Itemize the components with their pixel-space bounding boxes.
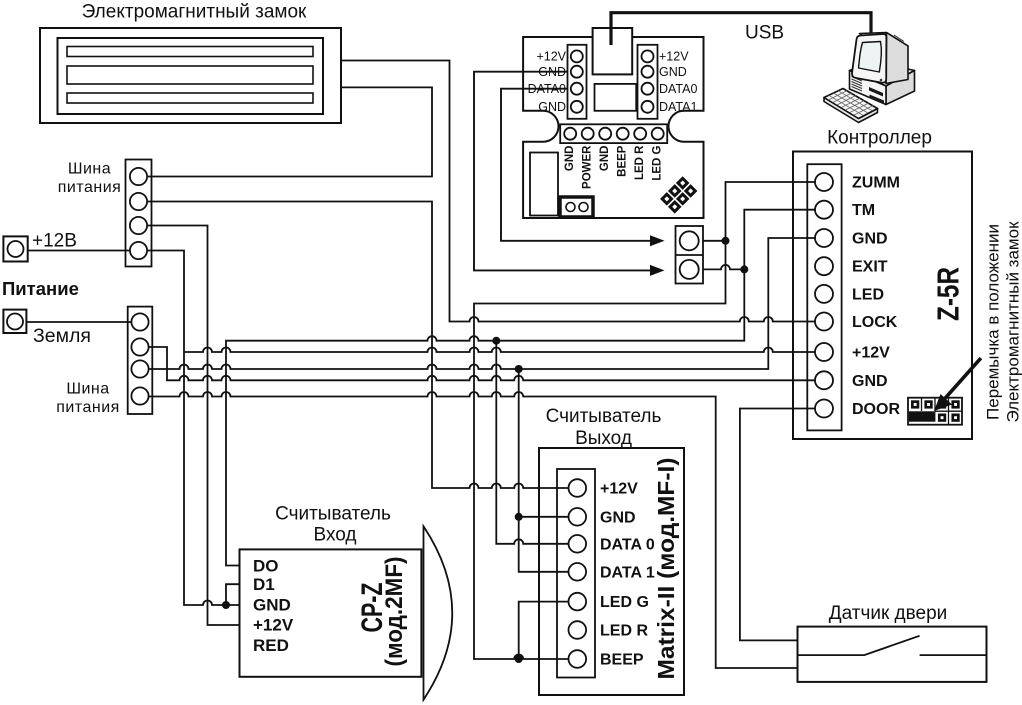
- svg-text:LED G: LED G: [652, 145, 664, 180]
- svg-text:LOCK: LOCK: [852, 314, 898, 331]
- svg-text:Питание: Питание: [2, 278, 79, 299]
- svg-text:POWER: POWER: [582, 145, 594, 189]
- wire: branch to Matrix LED G: [519, 602, 569, 659]
- svg-text:GND: GND: [538, 100, 566, 114]
- keyboard thickness: [824, 98, 878, 123]
- svg-text:питания: питания: [56, 399, 120, 416]
- wire: +12V rail to Z-5R +12V: [184, 348, 815, 353]
- power bus (bottom) connector: [128, 307, 153, 414]
- case top face: [850, 62, 915, 87]
- TM reader connector: [676, 226, 704, 284]
- case front face: [850, 71, 887, 105]
- svg-text:TM: TM: [852, 202, 875, 219]
- usb adapter: DATA0 wire to TM pin1 arrow: [501, 89, 652, 241]
- USB cable: [611, 13, 871, 36]
- USB adapter board outline with side notches: [523, 37, 703, 218]
- svg-text:GND: GND: [600, 509, 636, 526]
- svg-text:DATA 0: DATA 0: [600, 536, 655, 553]
- svg-text:GND: GND: [852, 373, 888, 390]
- TM connector pigtails: [703, 241, 744, 270]
- svg-text:BEEP: BEEP: [617, 145, 629, 177]
- svg-text:LED G: LED G: [600, 594, 649, 611]
- adapter bottom-left component: [530, 153, 558, 216]
- svg-text:DATA1: DATA1: [659, 100, 697, 114]
- svg-text:+12V: +12V: [600, 481, 638, 498]
- svg-text:Вход: Вход: [314, 525, 357, 546]
- CP-Z terminal labels: [253, 557, 294, 656]
- CP-Z reader box: [240, 549, 422, 676]
- adapter pin labels (vertical): [564, 145, 664, 189]
- +12V source terminal: [3, 236, 27, 261]
- electromagnetic lock body: [40, 28, 341, 123]
- svg-text:USB: USB: [745, 23, 784, 44]
- svg-text:LED: LED: [852, 287, 884, 304]
- wire: lock to Z-5R LOCK: [341, 61, 815, 322]
- svg-text:GND: GND: [659, 65, 687, 79]
- jumper arrow: [944, 358, 981, 399]
- svg-text:RED: RED: [253, 636, 289, 655]
- Matrix terminal labels: [600, 481, 655, 669]
- svg-text:Перемычка в положении: Перемычка в положении: [984, 224, 1003, 420]
- Matrix-II terminal strip: [557, 469, 595, 678]
- drive bays: [869, 87, 883, 97]
- usb cable stub into connector: [609, 27, 612, 45]
- case vents: [852, 77, 863, 92]
- junction wireA / Matrix DATA0 branch: [492, 337, 500, 345]
- wire: +12V to bus t4 to CP-Z GND: [28, 251, 240, 606]
- svg-text:Контроллер: Контроллер: [827, 128, 932, 149]
- svg-text:DATA 1: DATA 1: [600, 564, 655, 581]
- adapter center component: [595, 84, 637, 111]
- junction TM pin1: [722, 237, 730, 245]
- adapter right labels: [659, 50, 697, 115]
- wire: Z-5R DOOR to door sensor: [740, 409, 815, 641]
- wire: Z-5R ZUMM to TM pin1 to reader beep line: [474, 182, 815, 659]
- monitor top vents: [882, 35, 904, 42]
- computer (controller) icon: [824, 33, 915, 123]
- arrowhead to TM pin1: [650, 235, 665, 246]
- svg-text:LED R: LED R: [634, 145, 646, 180]
- wire: Z-5R TM to TM pin2 to CP-Z DO: [226, 210, 815, 566]
- svg-text:DATA0: DATA0: [528, 82, 566, 96]
- svg-text:DO: DO: [253, 557, 279, 576]
- junction b3-wire / Matrix GND branch: [515, 365, 523, 373]
- door sensor box: [798, 627, 987, 682]
- svg-text:ZUMM: ZUMM: [852, 175, 900, 192]
- Z-5R jumper block: [908, 398, 962, 425]
- power bus (top) connector: [126, 160, 152, 267]
- case right panel: [886, 71, 915, 105]
- monitor front: [852, 34, 886, 83]
- wire: bus t3 to CP-Z +12V: [148, 226, 240, 626]
- svg-text:Электромагнитный замок: Электромагнитный замок: [1004, 221, 1022, 423]
- wire: bus b4 to door sensor: [148, 392, 798, 668]
- svg-text:+12В: +12В: [32, 231, 77, 252]
- svg-text:+12V: +12V: [852, 345, 890, 362]
- wire: ground to bus b1: [26, 321, 131, 323]
- svg-text:(мод.2MF): (мод.2MF): [381, 557, 408, 667]
- svg-text:Matrix-II (мод.MF-I): Matrix-II (мод.MF-I): [653, 458, 679, 680]
- svg-text:Электромагнитный замок: Электромагнитный замок: [82, 2, 307, 23]
- junction Matrix GND tap: [515, 513, 523, 521]
- svg-text:питания: питания: [58, 179, 122, 196]
- junction TM pin2: [740, 265, 748, 273]
- Z-5R controller box: [793, 152, 972, 440]
- svg-text:+12V: +12V: [536, 50, 566, 64]
- CP-Z reader dome: [424, 526, 453, 699]
- svg-text:Z-5R: Z-5R: [931, 267, 966, 321]
- svg-text:+12V: +12V: [659, 50, 689, 64]
- svg-text:Шина: Шина: [66, 381, 109, 398]
- svg-text:GND: GND: [599, 146, 611, 172]
- svg-text:Считыватель: Считыватель: [546, 406, 662, 427]
- svg-text:Земля: Земля: [33, 325, 91, 347]
- adapter left terminal block: [568, 45, 587, 119]
- svg-text:EXIT: EXIT: [852, 259, 888, 276]
- adapter left labels: [528, 50, 567, 115]
- monitor top: [860, 33, 909, 50]
- svg-text:GND: GND: [852, 231, 888, 248]
- usb adapter: GND wire to TM pin2 arrow: [474, 72, 652, 271]
- wire: branch to Matrix GND: [519, 369, 569, 572]
- wire: bus b3 to Z-5R GND (upper): [148, 238, 815, 369]
- svg-text:LED R: LED R: [600, 623, 648, 640]
- wire: lock to power bus t1: [148, 87, 432, 176]
- svg-text:Считыватель: Считыватель: [275, 504, 391, 525]
- power led: [880, 79, 883, 82]
- Z-5R terminal strip: [807, 164, 841, 430]
- wire: bus t2 to Matrix +12V: [148, 202, 569, 489]
- wire: CP-Z D1 to GND junction: [226, 584, 240, 605]
- svg-text:GND: GND: [564, 146, 576, 172]
- svg-text:Выход: Выход: [575, 428, 632, 449]
- ground source terminal: [3, 310, 26, 333]
- wire: branch to Matrix DATA 0: [496, 341, 568, 544]
- wire: bus b2 to Z-5R GND (lower): [148, 347, 815, 380]
- adapter right terminal block: [638, 45, 658, 119]
- svg-text:+12V: +12V: [253, 616, 294, 635]
- svg-text:D1: D1: [253, 575, 275, 594]
- adapter pin row: [560, 124, 667, 143]
- junction beep/led-g: [515, 655, 523, 663]
- svg-text:DOOR: DOOR: [852, 401, 900, 418]
- monitor right panel: [886, 33, 908, 84]
- junction CP-Z D1/GND: [222, 601, 230, 609]
- arrowhead to TM pin2: [650, 265, 665, 276]
- svg-text:BEEP: BEEP: [600, 652, 644, 669]
- svg-text:Шина: Шина: [68, 161, 111, 178]
- Matrix-II reader box: [539, 448, 684, 695]
- keyboard keys: [828, 91, 873, 116]
- screen: [859, 42, 882, 73]
- adapter 2-hole jumper: [560, 197, 593, 217]
- adapter diagonal pin block: [660, 176, 697, 213]
- USB connector on board: [593, 28, 633, 74]
- door sensor switch: [798, 636, 987, 655]
- svg-text:DATA0: DATA0: [659, 82, 697, 96]
- svg-text:GND: GND: [253, 596, 291, 615]
- Z-5R terminal labels: [852, 175, 900, 419]
- svg-text:Датчик двери: Датчик двери: [829, 603, 948, 624]
- svg-text:GND: GND: [538, 65, 566, 79]
- keyboard top: [824, 89, 878, 119]
